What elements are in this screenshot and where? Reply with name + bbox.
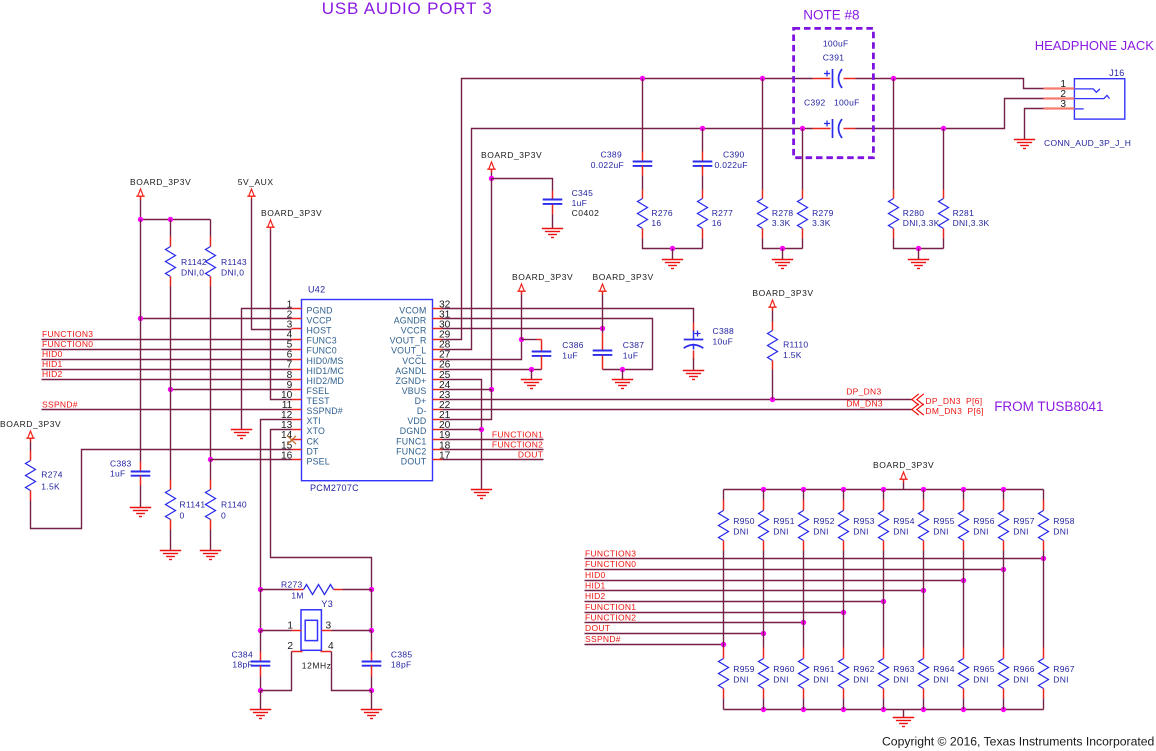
svg-text:C391: C391 (823, 53, 845, 63)
wire VOUT_R net top (443, 79, 813, 340)
svg-text:FUNCTION1: FUNCTION1 (585, 602, 636, 612)
resistor R1110 (768, 331, 778, 361)
R964 bottom stub (923, 689, 925, 699)
U42 pin 20 stub (DGND) (433, 429, 443, 431)
svg-text:C392: C392 (804, 98, 826, 108)
wire column R950 top (723, 490, 725, 500)
svg-text:Y3: Y3 (321, 599, 333, 609)
wire PGND (242, 309, 292, 430)
wire C390 to R277 (702, 176, 704, 190)
svg-text:Copyright © 2016, Texas Instru: Copyright © 2016, Texas Instruments Inco… (882, 735, 1154, 749)
svg-text:TEST: TEST (307, 396, 331, 406)
resistor R951 (759, 511, 769, 541)
svg-text:HID0: HID0 (42, 349, 63, 359)
wire R273 right (343, 589, 372, 591)
junction VCCP rail (138, 316, 143, 321)
wire J16 pin3 to ground (1025, 109, 1044, 140)
R959 top stub (723, 648, 725, 659)
C345 bottom stub (552, 205, 554, 215)
svg-text:D-: D- (417, 406, 427, 416)
J16 pin 2 stub (1044, 97, 1075, 99)
junction top bus col7 (1001, 487, 1006, 492)
junction XTI R273 (258, 587, 263, 592)
junction XTO xtal pin3 (369, 628, 374, 633)
R952 bottom stub (803, 541, 805, 551)
svg-text:HID1: HID1 (42, 359, 63, 369)
svg-text:R963: R963 (893, 664, 915, 674)
junction DGND (479, 427, 484, 432)
svg-text:100uF: 100uF (823, 39, 849, 49)
wire FUNCTION0 (42, 349, 292, 351)
svg-text:R955: R955 (933, 516, 955, 526)
svg-text:DNI: DNI (773, 675, 789, 685)
svg-text:R279: R279 (812, 208, 834, 218)
svg-text:AGNDL: AGNDL (395, 366, 426, 376)
svg-text:C388: C388 (713, 326, 735, 336)
svg-text:R962: R962 (853, 664, 875, 674)
junction top bus col6 (961, 487, 966, 492)
wire FSEL (171, 389, 292, 391)
R274 bottom stub (30, 491, 32, 501)
wire column R955 top (923, 490, 925, 500)
capacitor C392 (824, 119, 842, 138)
svg-text:0.022uF: 0.022uF (715, 160, 748, 170)
Y3 pin 1 stub (292, 630, 302, 632)
U42 pin 12 stub (XTI) (292, 419, 302, 421)
wire C392 left stub (813, 128, 831, 130)
U42 pin 30 stub (VCCR) (433, 328, 443, 330)
wire column R967 bottom (1043, 699, 1045, 710)
svg-text:R959: R959 (733, 664, 755, 674)
junction FUNCTION1 column (841, 610, 846, 615)
C385 bottom stub (371, 666, 373, 677)
svg-text:C387: C387 (623, 340, 645, 350)
wire xtal pin1 (261, 630, 292, 632)
wire 3P3V left rail (140, 200, 142, 220)
svg-text:DT: DT (307, 446, 320, 456)
wire column R952 top (803, 490, 805, 500)
junction VBUS rail (489, 387, 494, 392)
wire 3P3V rail to C345 junction (491, 173, 493, 179)
C386 bottom stub (541, 356, 543, 370)
wire XTO (271, 430, 372, 590)
capacitor C387 (593, 351, 613, 355)
C389 top stub (642, 152, 644, 162)
svg-text:FUNCTION2: FUNCTION2 (585, 613, 636, 623)
R279 top stub (802, 190, 804, 199)
resistor R961 (799, 659, 809, 689)
resistor R967 (1039, 659, 1049, 689)
svg-text:FUNC2: FUNC2 (396, 446, 426, 456)
svg-text:DOUT: DOUT (518, 450, 543, 460)
svg-text:DP_DN3 P[6]: DP_DN3 P[6] (925, 396, 982, 406)
junction C385 xtal pin4 (369, 688, 374, 693)
op-amp U42 body PCM2707C (302, 300, 433, 481)
R273 right stub (334, 589, 343, 591)
wire C390 column (702, 129, 704, 152)
resistor R958 (1039, 511, 1049, 541)
wire FUNCTION0 to array (585, 569, 1004, 571)
svg-text:ZGND+: ZGND+ (395, 376, 426, 386)
svg-text:DNI: DNI (773, 527, 789, 537)
wire C389 to R276 (642, 176, 644, 190)
rail stub (140, 197, 142, 200)
R965 top stub (963, 648, 965, 659)
U42 pin 25 stub (ZGND+) (433, 379, 443, 381)
R965 bottom stub (963, 689, 965, 699)
junction top bus col5 (921, 487, 926, 492)
ground C386 (521, 380, 542, 389)
resistor R964 (919, 659, 929, 689)
wire R1140 to ground (210, 530, 212, 551)
wire C385 to ground (371, 691, 373, 710)
svg-text:SSPND#: SSPND# (585, 634, 621, 644)
svg-text:DNI: DNI (1053, 675, 1069, 685)
capacitor C389 (633, 162, 653, 166)
svg-text:VOUT_R: VOUT_R (390, 336, 427, 346)
junction R1110 D+ (770, 397, 775, 402)
wire DOUT to array (585, 633, 764, 635)
svg-text:2: 2 (287, 641, 293, 652)
svg-text:AGNDR: AGNDR (394, 316, 427, 326)
wire VBUS (443, 389, 492, 391)
wire AGNDR (443, 319, 653, 370)
svg-text:DOUT: DOUT (585, 623, 610, 633)
wire rail to R1142 R1143 (141, 219, 211, 221)
junction VOUT_L C390 (700, 126, 705, 131)
junction top bus col3 (841, 487, 846, 492)
wire column R950 middle (723, 551, 725, 648)
R958 top stub (1043, 500, 1045, 511)
wire R1110 top (772, 311, 774, 322)
wire R1140 top (210, 460, 212, 480)
R951 bottom stub (763, 541, 765, 551)
R953 top stub (843, 500, 845, 511)
svg-text:HOST: HOST (307, 326, 333, 336)
svg-text:PGND: PGND (307, 305, 333, 315)
wire AGNDL (443, 369, 542, 371)
svg-text:HID0/MS: HID0/MS (307, 356, 344, 366)
J16 pin 2 contact (1074, 95, 1109, 98)
junction bottom bus col5 (921, 707, 926, 712)
wire D+ (443, 399, 912, 401)
svg-text:18pF: 18pF (232, 660, 253, 670)
svg-text:BOARD_3P3V: BOARD_3P3V (873, 460, 934, 470)
svg-text:DGND: DGND (400, 426, 427, 436)
svg-text:100uF: 100uF (834, 98, 860, 108)
junction FUNCTION2 column (801, 620, 806, 625)
junction HID2 column (881, 599, 886, 604)
power BOARD_3P3V VCCR rail (598, 284, 607, 294)
C383 top stub (140, 462, 142, 472)
wire 3P3V rail down (491, 179, 493, 390)
wire column R963 bottom (883, 699, 885, 710)
junction bottom bus col2 (801, 707, 806, 712)
wire FUNCTION2 (443, 449, 544, 451)
wire R281 bottom (943, 239, 945, 249)
rail stub (491, 170, 493, 173)
wire column R953 top (843, 490, 845, 500)
resistor R278 (758, 199, 768, 229)
power BOARD_3P3V left rail (136, 189, 145, 199)
wire R1141 to ground (170, 530, 172, 551)
wire ground stub AGNDR (622, 370, 624, 380)
wire VCCP (141, 318, 292, 320)
svg-text:BOARD_3P3V: BOARD_3P3V (481, 150, 542, 160)
svg-text:VDD: VDD (407, 416, 426, 426)
svg-text:R280: R280 (903, 208, 925, 218)
U42 pin 11 stub (SSPND#) (292, 409, 302, 411)
junction XTI xtal pin1 (258, 628, 263, 633)
wire ground stub R280 R281 (918, 249, 920, 260)
wire HID0 (42, 359, 292, 361)
junction XTO R273 (369, 587, 374, 592)
R964 top stub (923, 648, 925, 659)
power BOARD_3P3V VCCL rail (517, 284, 526, 294)
wire XTO down (371, 590, 373, 631)
junction 3P3V C345 (489, 176, 494, 181)
svg-text:R1141: R1141 (180, 500, 206, 510)
ground PGND (231, 430, 252, 439)
U42 pin 26 stub (AGNDL) (433, 369, 443, 371)
svg-text:R278: R278 (772, 208, 794, 218)
wire array bottom bus (724, 709, 1044, 711)
svg-text:HID0: HID0 (585, 570, 606, 580)
resistor R955 (919, 511, 929, 541)
svg-text:DNI: DNI (933, 527, 949, 537)
wire XTI (261, 420, 292, 590)
wire D- (443, 409, 912, 411)
wire HID0 to array (585, 580, 964, 582)
svg-text:DNI: DNI (893, 675, 909, 685)
R276 bottom stub (642, 229, 644, 239)
off-page connector DP_DN3 (912, 394, 924, 405)
svg-text:DNI: DNI (933, 675, 949, 685)
capacitor C345 (543, 200, 563, 204)
junction bottom bus col4 (881, 707, 886, 712)
svg-text:XTI: XTI (307, 416, 321, 426)
svg-text:BOARD_3P3V: BOARD_3P3V (130, 177, 191, 187)
R277 bottom stub (702, 229, 704, 239)
wire XTI down (260, 590, 262, 631)
svg-text:3: 3 (326, 620, 332, 631)
svg-text:C384: C384 (231, 650, 253, 660)
svg-text:FUNC1: FUNC1 (396, 436, 426, 446)
wire bottom bus ground stub (903, 710, 905, 718)
svg-text:C383: C383 (110, 459, 132, 469)
wire ground stub R278 R279 (782, 249, 784, 260)
wire FUNCTION1 to array (585, 612, 844, 614)
junction top bus col4 (881, 487, 886, 492)
wire DGND (443, 429, 482, 431)
wire FUNCTION1 (443, 439, 544, 441)
rail stub (521, 292, 523, 295)
svg-text:DP_DN3: DP_DN3 (846, 386, 881, 396)
capacitor C383 (131, 472, 151, 476)
svg-text:SSPND#: SSPND# (42, 399, 78, 409)
svg-text:VCCL: VCCL (402, 356, 426, 366)
C384 top stub (260, 652, 262, 662)
wire HOST (252, 199, 292, 330)
svg-text:R967: R967 (1053, 664, 1075, 674)
U42 pin 27 stub (VCCL) (433, 359, 443, 361)
svg-text:HID2: HID2 (585, 591, 606, 601)
svg-text:R952: R952 (813, 516, 835, 526)
wire R274 to DT (31, 450, 292, 529)
U42 pin 5 stub (FUNC0) (292, 349, 302, 351)
svg-text:DNI,3.3K: DNI,3.3K (953, 218, 990, 228)
svg-text:DNI,0: DNI,0 (221, 268, 244, 278)
wire R1143 to PSEL junction (210, 287, 212, 460)
svg-text:R273: R273 (281, 580, 303, 590)
svg-text:XTO: XTO (307, 426, 326, 436)
R279 bottom stub (802, 229, 804, 239)
svg-text:R954: R954 (893, 516, 915, 526)
U42 pin 13 stub (XTO) (292, 429, 302, 431)
R967 top stub (1043, 648, 1045, 659)
R1142 top stub (170, 237, 172, 247)
U42 pin 10 stub (TEST) (292, 399, 302, 401)
C389 bottom stub (642, 166, 644, 176)
U42 pin 14 stub (CK) (292, 439, 302, 441)
wire column R965 bottom (963, 699, 965, 710)
off-page connector DM_DN3 (912, 404, 924, 415)
wire xtal pin3 (332, 630, 372, 632)
svg-text:USB AUDIO PORT 3: USB AUDIO PORT 3 (322, 0, 493, 18)
R967 bottom stub (1043, 689, 1045, 699)
junction DOUT column (761, 631, 766, 636)
wire column R951 middle (763, 551, 765, 648)
wire column R953 middle (843, 551, 845, 648)
junction VOUT_L R281 (941, 126, 946, 131)
U42 pin 17 stub (DOUT) (433, 459, 443, 461)
ground R1141 (160, 551, 181, 560)
wire HID1 (42, 369, 292, 371)
svg-text:C385: C385 (391, 650, 413, 660)
resistor R276 (638, 199, 648, 229)
svg-text:R966: R966 (1013, 664, 1035, 674)
svg-text:0: 0 (180, 511, 185, 521)
svg-text:1uF: 1uF (562, 351, 578, 361)
power BOARD_3P3V TEST rail (266, 220, 275, 230)
wire column R954 top (883, 490, 885, 500)
junction FUNCTION3 column (1041, 556, 1046, 561)
power BOARD_3P3V R1110 (768, 300, 777, 310)
R278 bottom stub (762, 229, 764, 239)
resistor R966 (999, 659, 1009, 689)
resistor R279 (798, 199, 808, 229)
C384 bottom stub (260, 666, 262, 677)
junction rail R1142 top (138, 217, 143, 222)
svg-text:HID1/MC: HID1/MC (307, 366, 345, 376)
junction bottom bus col3 (841, 707, 846, 712)
wire R1142 to FSEL junction (170, 287, 172, 390)
svg-text:R965: R965 (973, 664, 995, 674)
resistor R959 (719, 659, 729, 689)
junction R280 R281 ground (916, 246, 921, 251)
svg-text:DM_DN3: DM_DN3 (846, 398, 883, 408)
svg-text:DM_DN3 P[6]: DM_DN3 P[6] (925, 406, 983, 416)
R959 bottom stub (723, 689, 725, 699)
svg-text:16: 16 (651, 218, 661, 228)
svg-text:3.3K: 3.3K (812, 218, 831, 228)
resistor R950 (719, 511, 729, 541)
R1110 top stub (772, 322, 774, 331)
wire R273 left (261, 589, 295, 591)
U42 pin 1 stub (PGND) (292, 308, 302, 310)
C385 top stub (371, 652, 373, 662)
wire SSPND# to array (585, 644, 724, 646)
U42 pin 6 stub (HID0/MS) (292, 359, 302, 361)
U42 pin 22 stub (D-) (433, 409, 443, 411)
C345 top stub (552, 191, 554, 200)
svg-text:VBUS: VBUS (402, 386, 427, 396)
U42 pin 21 stub (VDD) (433, 419, 443, 421)
U42 pin 29 stub (VOUT_R) (433, 339, 443, 341)
wire 3P3V rail down to C383 (140, 220, 142, 462)
resistor R1140 (206, 490, 216, 520)
ground J16 (1014, 140, 1035, 149)
svg-text:DNI: DNI (733, 527, 749, 537)
svg-text:5V_AUX: 5V_AUX (238, 177, 274, 187)
svg-text:CONN_AUD_3P_J_H: CONN_AUD_3P_J_H (1044, 138, 1131, 148)
wire C389 column (642, 79, 644, 152)
wire ground stub R276 R277 (672, 249, 674, 260)
C388 top stub (693, 323, 695, 332)
junction FUNCTION0 column (1001, 567, 1006, 572)
wire C391 left stub (813, 78, 831, 80)
svg-text:R276: R276 (651, 208, 673, 218)
junction AGNDR ground (620, 367, 625, 372)
resistor R280 (889, 199, 899, 229)
wire C384 bottom (260, 677, 262, 691)
wire R278 column (762, 79, 764, 190)
Y3 pin 3 stub (322, 630, 332, 632)
svg-text:FUNCTION0: FUNCTION0 (42, 339, 93, 349)
resistor R1142 (166, 247, 176, 277)
capacitor C386 (532, 352, 552, 356)
resistor R1143 (206, 247, 216, 277)
wire R280 column (893, 79, 895, 190)
R963 bottom stub (883, 689, 885, 699)
svg-text:VOUT_L: VOUT_L (391, 346, 426, 356)
R960 top stub (763, 648, 765, 659)
R1141 top stub (170, 480, 172, 490)
svg-text:R277: R277 (712, 208, 734, 218)
resistor R277 (698, 199, 708, 229)
svg-text:R1143: R1143 (221, 257, 247, 267)
wire R276 bottom (643, 239, 703, 249)
svg-text:1uF: 1uF (572, 198, 588, 208)
J16 pin 3 contact (1074, 108, 1083, 110)
svg-text:HID1: HID1 (585, 581, 606, 591)
wire R277 bottom (702, 239, 704, 249)
Y3 pin 2 stub (292, 651, 303, 653)
capacitor C391 (824, 69, 842, 88)
svg-text:R1142: R1142 (181, 257, 207, 267)
rail stub (30, 439, 32, 442)
R954 top stub (883, 500, 885, 511)
svg-text:DNI: DNI (853, 527, 869, 537)
junction R278 R279 ground (780, 246, 785, 251)
wire R279 column (802, 129, 804, 190)
svg-text:R1140: R1140 (221, 500, 247, 510)
ground C345 (542, 229, 563, 238)
svg-text:3: 3 (1060, 99, 1066, 110)
svg-text:VCCP: VCCP (307, 316, 332, 326)
wire VOUT_L net (443, 129, 813, 350)
wire ground stub AGNDL (531, 370, 533, 380)
